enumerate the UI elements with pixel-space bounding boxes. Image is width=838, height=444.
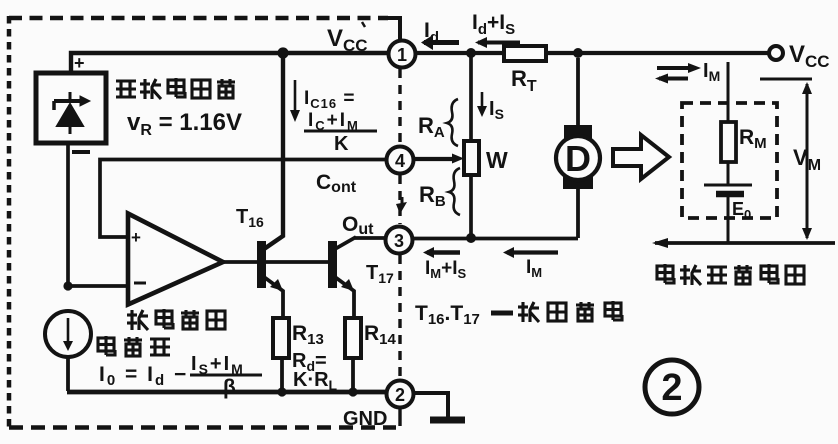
svg-text:+: +: [74, 53, 85, 73]
current arrow Id+Is: [478, 41, 520, 45]
wire inverting input: [68, 284, 126, 288]
VM top reference bar: [760, 78, 812, 81]
wire top to RM: [727, 62, 730, 122]
ground symbol: [414, 393, 448, 418]
bottom wire equivalent circuit: [655, 241, 835, 245]
wire T16 collector to Vcc rail: [264, 53, 283, 249]
current arrow IM right top: [657, 66, 696, 70]
wire RM to battery: [727, 162, 730, 184]
transistor T16: [257, 241, 283, 318]
block arrow: [613, 135, 669, 179]
pin 2: [387, 381, 414, 408]
resistor RM: [721, 122, 736, 162]
wire pin 3 to motor: [413, 237, 578, 241]
potentiometer W body: [464, 141, 479, 175]
wire current source to ground bus: [66, 357, 70, 391]
svg-text:2: 2: [395, 385, 405, 405]
current arrow IC16: [294, 80, 297, 116]
reference voltage source box: [36, 73, 106, 143]
resistor R14: [345, 318, 361, 358]
wire T17 collector to pin 3: [355, 236, 386, 240]
label motor equivalent circuit: [657, 264, 804, 285]
IC package dashed border: [9, 16, 400, 429]
label minus: [72, 150, 90, 154]
current arrow IM return: [659, 77, 688, 81]
brace RB: [449, 168, 460, 215]
op-amp comparator: [128, 214, 223, 305]
ground bus wire: [67, 390, 387, 395]
junction dot divider to out wire: [466, 233, 476, 243]
zener diode: [54, 92, 90, 134]
label T16 T17 proportional drive: [415, 301, 622, 328]
junction dot divider branch: [466, 48, 476, 58]
wire Cont to non-inverting input: [100, 160, 387, 238]
pin 4: [387, 147, 414, 174]
transistor T17: [328, 237, 356, 318]
junction dot R14 ground: [348, 387, 357, 396]
wire zener to inverting input: [66, 143, 70, 286]
svg-text:β: β: [223, 376, 236, 399]
wiper arrow from pin 4: [413, 157, 453, 161]
svg-text:2: 2: [661, 367, 682, 409]
divider vertical wire: [469, 53, 473, 237]
arrow into pin 3 on dashed border: [401, 197, 404, 205]
current arrow Id: [424, 40, 459, 45]
current source I0: [45, 311, 91, 357]
svg-text:+: +: [131, 228, 141, 247]
current arrow IM+IS: [427, 250, 460, 255]
wire battery to bottom: [727, 197, 730, 243]
junction dot inverting input: [63, 281, 72, 290]
VM arrow: [806, 84, 809, 238]
label 比较放大: [127, 309, 225, 330]
resistor RT: [504, 46, 546, 61]
motor equivalent circuit dashed box: [682, 103, 777, 218]
svg-text:4: 4: [395, 151, 405, 171]
svg-text:3: 3: [394, 231, 404, 251]
brace RA: [447, 99, 458, 146]
svg-text:D: D: [565, 138, 591, 179]
pin 3: [386, 227, 413, 254]
battery E0: [704, 184, 752, 187]
junction dot R13 ground: [277, 387, 286, 396]
svg-text:W: W: [486, 147, 508, 173]
svg-text:K: K: [334, 133, 349, 155]
current arrow IS divider: [481, 92, 484, 110]
motor D: [556, 58, 600, 238]
wire Vcc rail right (pin1 to RT to terminal): [416, 51, 770, 55]
label 电流源: [98, 336, 170, 356]
figure number 2: [645, 360, 699, 414]
svg-text:1: 1: [397, 45, 407, 65]
pin 1: [389, 41, 416, 68]
wire base bus: [222, 260, 330, 264]
terminal Vcc: [769, 46, 783, 60]
resistor R13: [273, 318, 289, 358]
label 基准电压源: [116, 78, 235, 99]
current arrow IM left: [507, 250, 558, 254]
junction dot motor branch: [573, 48, 583, 58]
junction dot T16 collector on Vcc rail: [277, 47, 288, 58]
wire Vcc rail left (zener top to pin 1): [71, 53, 389, 74]
svg-text:GND: GND: [343, 408, 387, 430]
